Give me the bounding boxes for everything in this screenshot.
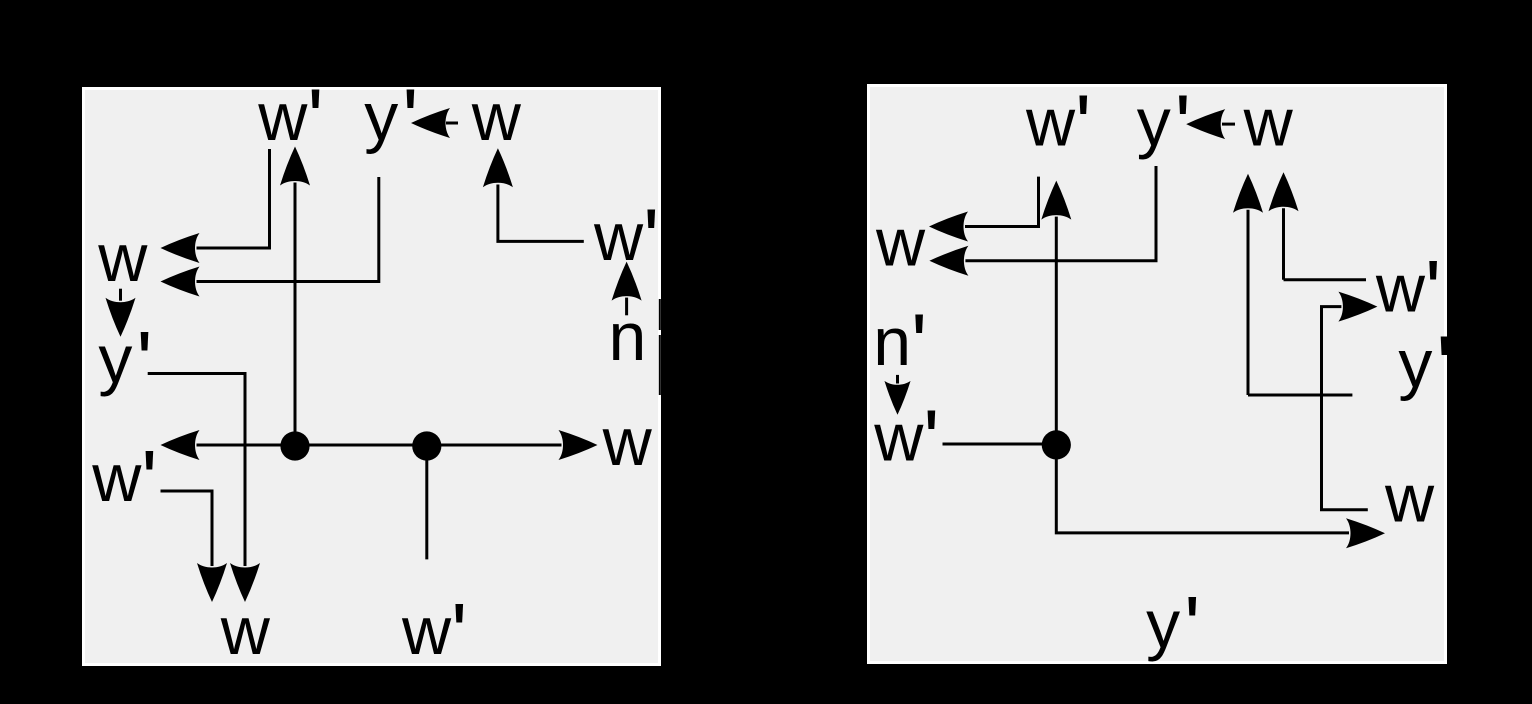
svg-text:w': w' (1375, 244, 1441, 339)
clipped mark upper at panel edge (left panel) (659, 299, 661, 330)
arrowhead main wire left (left panel) (161, 430, 200, 460)
arrowhead main wire right (left panel) (559, 430, 598, 460)
arrowhead to w upper (right panel) (929, 212, 968, 242)
arrowhead up to w (left panel) (483, 148, 513, 187)
svg-text:w: w (97, 220, 148, 296)
wire w'-stem to left arrow (left panel) (197, 149, 270, 248)
stub wire below dot 2 (left panel) (425, 446, 428, 559)
node dot 1 (left panel) (280, 431, 309, 460)
wire from dot down and right to long arrow (right panel) (1056, 445, 1349, 533)
node dot (right panel) (1042, 430, 1071, 459)
svg-text:w': w' (401, 587, 467, 682)
arrowhead up arrow 1 (right panel) (1233, 174, 1263, 213)
arrowhead big up arrow (left panel) (280, 147, 310, 186)
big up arrow wire (right panel) (1055, 217, 1058, 445)
left panel frame (82, 87, 661, 666)
svg-text:w: w (220, 593, 271, 669)
main horizontal wire (left panel) (197, 444, 562, 447)
svg-text:n': n' (873, 298, 927, 393)
wire y'-stem to left arrow (left panel) (197, 177, 379, 282)
up arrow 1 wire (right panel) (1248, 210, 1352, 395)
svg-text:w: w (1243, 85, 1294, 161)
svg-text:w: w (602, 404, 653, 480)
arrow w to y' (left panel) (446, 122, 458, 125)
svg-text:w': w' (1025, 78, 1091, 173)
wire w' right to up arrow (left panel) (498, 185, 584, 242)
arrowhead to w upper (left panel) (161, 233, 200, 263)
wire w'-stem to left arrow (right panel) (965, 177, 1039, 227)
arrowhead down w' wire (left panel) (197, 563, 227, 602)
right panel interior (870, 87, 1444, 661)
wire w' left to dot (right panel) (943, 443, 1057, 446)
arrowhead up arrow 2 (right panel) (1269, 172, 1299, 211)
clipped mark lower at panel edge (left panel) (659, 335, 661, 395)
svg-text:y': y' (98, 315, 152, 410)
node dot 2 (left panel) (412, 431, 441, 460)
svg-text:w': w' (873, 393, 939, 488)
arrowhead down y' wire (left panel) (230, 563, 260, 602)
svg-text:w': w' (91, 434, 157, 529)
down arrow below w left (left panel) (119, 289, 122, 301)
up arrow 2 wire (right panel) (1284, 208, 1367, 279)
wire y'-stem to left arrow (right panel) (965, 166, 1156, 261)
big up arrow wire (left panel) (294, 183, 297, 447)
wire right-arrow to w' and down to w (right panel) (1322, 307, 1368, 510)
svg-text:y': y' (1398, 320, 1452, 415)
left panel interior (85, 90, 658, 663)
svg-text:w: w (875, 205, 926, 281)
arrowhead right to w' (right panel) (1338, 292, 1377, 322)
wire w' left to down arrow (left panel) (161, 491, 213, 566)
svg-text:y': y' (1146, 580, 1200, 675)
svg-text:w: w (1384, 460, 1435, 536)
svg-text:w': w' (257, 73, 323, 168)
svg-text:n: n (609, 299, 647, 375)
wire y' left to down arrow (left panel) (148, 374, 245, 567)
arrowhead to w lower (right panel) (929, 246, 968, 276)
svg-text:w: w (471, 79, 522, 155)
svg-text:y': y' (364, 73, 418, 168)
arrowhead big up arrow (right panel) (1041, 181, 1071, 220)
svg-text:y': y' (1137, 78, 1191, 173)
up arrow from n (left panel) (625, 298, 628, 316)
arrowhead long right arrow (right panel) (1346, 518, 1385, 548)
right panel frame (867, 84, 1447, 664)
down arrow below n' (right panel) (896, 375, 899, 384)
arrowhead to w lower (left panel) (161, 267, 200, 297)
arrow w to y' (right panel) (1222, 123, 1235, 126)
